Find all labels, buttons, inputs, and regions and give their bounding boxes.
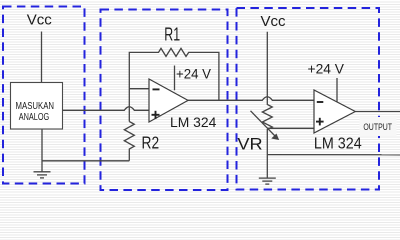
svg-text:+24 V: +24 V [308,61,345,77]
svg-text:Vcc: Vcc [260,13,286,30]
svg-text:Vcc: Vcc [27,11,53,28]
svg-text:OUTPUT: OUTPUT [363,122,392,132]
svg-text:R1: R1 [164,25,180,45]
svg-text:LM 324: LM 324 [170,114,217,130]
svg-text:VR: VR [237,135,262,154]
svg-text:LM 324: LM 324 [314,135,362,152]
svg-text:MASUKAN: MASUKAN [16,101,55,112]
svg-text:R2: R2 [142,132,160,152]
svg-text:ANALOG: ANALOG [19,112,50,123]
svg-text:+24 V: +24 V [176,66,211,81]
